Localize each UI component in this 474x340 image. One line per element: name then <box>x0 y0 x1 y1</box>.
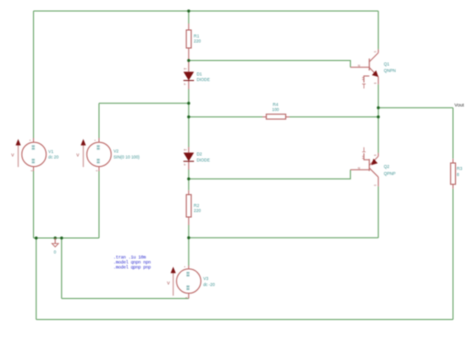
svg-text:QPNP: QPNP <box>384 171 396 176</box>
voltage source V2 <box>87 142 111 166</box>
junction node R4 left <box>187 115 190 118</box>
pin name V3 bottom inside <box>187 286 190 291</box>
voltage source V3 <box>177 269 201 293</box>
resistor R4 <box>266 114 285 119</box>
wire Q2 collector to bus horizontal <box>189 237 379 239</box>
wire Vout vertical to R3 <box>452 108 454 159</box>
spice directive text <box>113 254 151 270</box>
pin R3 top <box>452 159 454 163</box>
substrate pin Q2 <box>362 147 369 160</box>
pin name V2 top inside <box>97 145 100 150</box>
substrate pin Q1 <box>362 76 369 89</box>
svg-text:Q2: Q2 <box>384 164 390 169</box>
wire R3 bottom vertical <box>452 189 454 320</box>
wire bus segment R2 to V3 <box>188 225 190 266</box>
svg-text:k-: k- <box>184 163 186 167</box>
pin R4 right <box>286 116 290 118</box>
svg-text:a+: a+ <box>184 68 187 71</box>
junction node ground rail left <box>35 237 38 240</box>
svg-text:V2: V2 <box>114 148 120 153</box>
pin name V2 bottom inside <box>97 159 100 163</box>
svg-text:V: V <box>11 153 14 158</box>
wire R4 node to Q2 emitter <box>377 117 379 153</box>
arrow of V1 <box>16 139 21 167</box>
pin V3 minus <box>188 293 190 298</box>
pin V2 plus <box>98 138 100 142</box>
junction node R4 right <box>377 115 380 118</box>
pin Q2 emitter <box>377 153 379 156</box>
svg-text:‑e‑: ‑e‑ <box>374 154 377 157</box>
diode D2 <box>183 153 194 162</box>
pin Q1 emitter <box>377 77 379 85</box>
junction node Vout at Q1 emitter <box>377 106 380 109</box>
junction node at top rail and bus <box>187 10 190 13</box>
wire V1 top vertical <box>33 11 35 142</box>
pin D2 cathode <box>188 161 190 169</box>
svg-text:k-: k- <box>184 82 186 86</box>
wire Q1 emitter to Vout node <box>377 84 379 107</box>
junction node below D2 <box>187 177 190 180</box>
junction node ground symbol <box>54 237 57 240</box>
svg-text:.tran .1u 10m: .tran .1u 10m <box>113 254 146 260</box>
resistor R2 <box>186 195 191 217</box>
pin name V1 bottom inside <box>32 159 35 163</box>
wire bus segment top rail to R1 <box>188 11 190 24</box>
pin R4 left <box>263 116 267 118</box>
svg-text:Q1: Q1 <box>384 61 390 66</box>
svg-text:dc 20: dc 20 <box>48 155 59 160</box>
voltage source V1 <box>22 142 46 166</box>
wire Q2 collector down <box>377 186 379 238</box>
svg-text:DIODE: DIODE <box>197 157 210 162</box>
transistor Q1 <box>369 53 378 77</box>
wire V3 bottom horizontal <box>62 298 189 300</box>
pin D2 anode <box>188 147 190 153</box>
svg-text:.model qnpn npn: .model qnpn npn <box>113 260 151 266</box>
pin Q2 base <box>350 169 369 171</box>
wire V1 bottom vertical <box>33 167 35 238</box>
wire bus segment D1 to D2 <box>188 89 190 147</box>
svg-text:D1: D1 <box>197 72 203 77</box>
pin D1 cathode <box>188 81 190 90</box>
junction node below R2 <box>187 236 190 239</box>
svg-text:V1: V1 <box>48 149 54 154</box>
pin V1 plus <box>33 138 35 142</box>
junction node below R1 <box>187 59 190 62</box>
svg-text:D2: D2 <box>197 152 203 157</box>
junction node below D1 to V2 <box>187 102 190 105</box>
svg-text:‑c‑: ‑c‑ <box>374 50 377 53</box>
svg-text:‑c‑: ‑c‑ <box>374 184 377 187</box>
svg-text:a+: a+ <box>184 148 187 151</box>
svg-text:R3: R3 <box>457 166 463 171</box>
svg-text:b|: b| <box>358 63 360 67</box>
wire R4 right <box>290 116 379 118</box>
pin R1 top <box>188 24 190 31</box>
wire bottom rail <box>36 319 453 321</box>
svg-text:V: V <box>76 153 79 158</box>
pin Q2 collector <box>377 177 379 186</box>
ground <box>52 238 58 247</box>
svg-text:dc -20: dc -20 <box>203 282 215 287</box>
pin R3 bottom <box>452 184 454 189</box>
pin V2 minus <box>98 167 100 171</box>
wire left drop to bottom rail <box>35 238 37 320</box>
svg-text:Vout: Vout <box>454 103 464 109</box>
pin Q1 collector <box>377 49 379 53</box>
pin R1 bottom / D1 anode <box>188 48 190 72</box>
resistor R1 <box>186 30 191 48</box>
svg-text:V3: V3 <box>203 276 209 281</box>
svg-text:DIODE: DIODE <box>197 77 210 82</box>
wire ground rail <box>34 237 100 239</box>
pin V1 minus <box>33 167 35 171</box>
wire R4 left <box>189 116 263 118</box>
pin V3 plus <box>188 266 190 269</box>
junction node V3 return <box>60 237 63 240</box>
arrow of V2 <box>81 139 86 167</box>
svg-text:V: V <box>167 280 170 285</box>
wire Vout horizontal <box>378 107 453 109</box>
svg-text:220: 220 <box>194 208 202 213</box>
pin R2 bottom <box>188 217 190 225</box>
svg-text:b|: b| <box>358 166 360 170</box>
wire Q2 base horizontal <box>189 170 351 179</box>
svg-text:100: 100 <box>272 107 280 112</box>
svg-text:QNPN: QNPN <box>384 68 396 73</box>
wire node between D1 and V2 horizontal <box>99 102 189 104</box>
wire ground to V3 drop <box>61 238 63 299</box>
wire node Vout to R4 node <box>377 108 379 117</box>
wire V2 top vertical <box>98 103 100 142</box>
svg-text:‑e‑: ‑e‑ <box>374 82 377 85</box>
resistor R3 <box>451 163 456 184</box>
svg-text:.model qpnp pnp: .model qpnp pnp <box>113 265 151 271</box>
svg-text:220: 220 <box>194 39 202 44</box>
pin name V3 top inside <box>187 272 190 277</box>
pin name V1 top inside <box>32 145 35 150</box>
wire Q1 collector vertical <box>377 11 379 49</box>
arrow of V3 <box>171 267 176 296</box>
wire V2 bottom vertical <box>98 167 100 238</box>
transistor Q2 <box>369 156 378 177</box>
pin Q1 base <box>350 66 369 68</box>
pin R2 top <box>188 190 190 194</box>
svg-text:SIN(0 10 100): SIN(0 10 100) <box>114 155 141 160</box>
wire bus segment D2 to R2 <box>188 170 190 191</box>
diode D1 <box>183 72 194 81</box>
wire Q1 base horizontal <box>189 61 351 68</box>
wire top rail from V1 to Q1 collector <box>34 10 379 12</box>
